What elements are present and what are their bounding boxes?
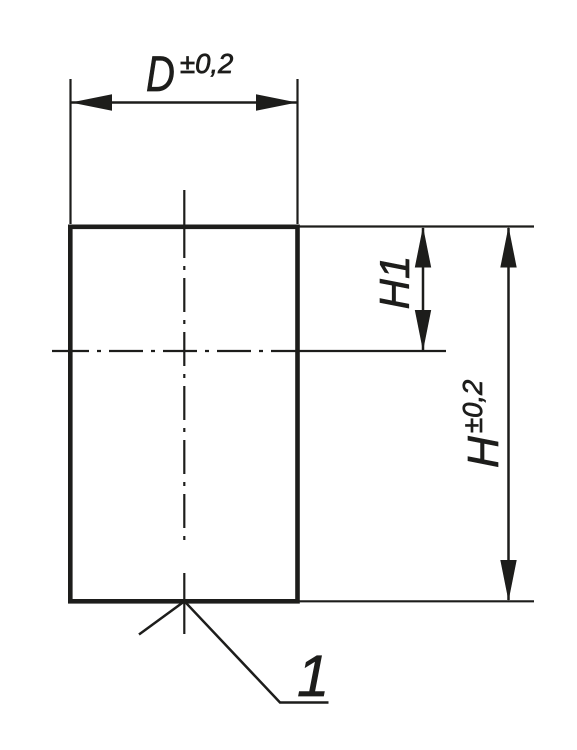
svg-text:±0,2: ±0,2 [457, 380, 488, 433]
svg-text:D: D [146, 46, 175, 102]
svg-text:±0,2: ±0,2 [180, 48, 233, 79]
svg-text:H1: H1 [371, 256, 418, 310]
svg-text:1: 1 [297, 644, 329, 709]
svg-text:H: H [459, 436, 508, 468]
